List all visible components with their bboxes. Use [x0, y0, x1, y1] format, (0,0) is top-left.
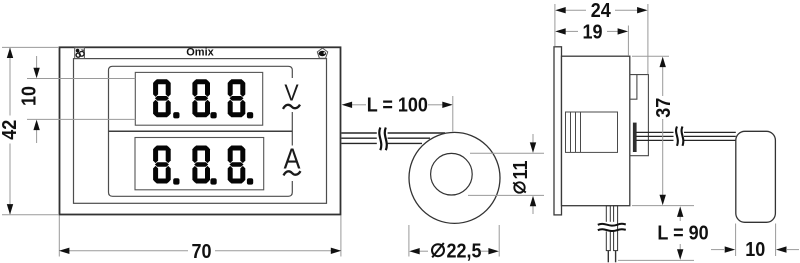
- svg-text:10: 10: [745, 239, 765, 261]
- svg-text:19: 19: [582, 22, 602, 44]
- dim 10 toroid arrows (outside): [711, 249, 724, 251]
- dim 37 line: [662, 62, 664, 96]
- rear terminal block outline: [630, 75, 649, 156]
- toroid inner hole: [431, 153, 473, 195]
- cable wire middle line: [341, 137, 430, 139]
- dim dia11 symbol + text rotated: [510, 160, 532, 193]
- dim 42 line: [9, 48, 11, 116]
- toroid outer circle: [409, 132, 500, 223]
- dim 24 line: [564, 9, 586, 11]
- cable wire top line: [341, 132, 445, 134]
- meter body side: [562, 56, 630, 206]
- side cable break gap: [674, 126, 685, 146]
- svg-text:11: 11: [510, 160, 532, 179]
- dim 10 arrows (outside): [36, 56, 38, 69]
- svg-text:37: 37: [653, 98, 675, 118]
- dim 10 toroid ext lines: [735, 224, 737, 257]
- side cable bottom line: [636, 139, 736, 141]
- internal module box: [566, 112, 618, 152]
- dim L=100 ext line to toroid: [452, 96, 454, 132]
- dim 42 arrowheads: [7, 48, 13, 59]
- dim 24 ext lines: [554, 4, 556, 46]
- dim dia11 ext lines: [470, 152, 544, 154]
- dim L=100 line: [350, 104, 366, 106]
- display bezel rounded rect: [109, 66, 293, 196]
- V row digits 8.8.8.: [153, 79, 253, 118]
- A display window: [135, 138, 264, 190]
- svg-text:10: 10: [19, 86, 41, 106]
- toroid side view: [736, 131, 776, 222]
- wire 2 core: [615, 251, 617, 263]
- dim 24 arrowheads: [555, 7, 566, 13]
- side cable break curves: [676, 127, 683, 146]
- dim L=90 arrowheads: [677, 206, 683, 217]
- bezel outer frame: [60, 47, 341, 214]
- svg-text:L = 90: L = 90: [657, 223, 708, 245]
- wire break gap: [603, 222, 617, 232]
- dim 37 ext lines: [632, 55, 669, 57]
- side cable top line: [636, 131, 736, 133]
- dim 19 arrowheads: [555, 28, 566, 34]
- dim dia22,5 line: [418, 250, 428, 252]
- flange / bezel side profile: [554, 47, 562, 215]
- dim 10 ext lines: [27, 78, 135, 80]
- dim 70 ext lines: [58, 216, 60, 257]
- tilde under V: [283, 105, 300, 109]
- svg-text:Omix: Omix: [186, 47, 214, 59]
- dim dia22,5 arrowheads: [409, 248, 420, 254]
- dim 42 ext lines: [2, 46, 59, 48]
- right header pentagon mark: [317, 48, 327, 58]
- rear block notch: [630, 75, 637, 100]
- A row digits 8.8.8.: [153, 146, 253, 185]
- inner front panel: [74, 59, 327, 204]
- cable break gap: [377, 127, 388, 152]
- dim L=90 line: [679, 213, 681, 221]
- dim 19 ext line: [627, 26, 629, 56]
- dim 37 arrowheads: [660, 57, 666, 68]
- tilde under A: [284, 171, 301, 175]
- dim L=100 arrowheads: [342, 102, 353, 108]
- svg-text:L = 100: L = 100: [367, 95, 428, 117]
- cable wire bottom line: [341, 142, 422, 144]
- dim dia22,5 diameter symbol: [432, 243, 444, 257]
- dim dia11 arrows (outside): [532, 134, 534, 144]
- divider line between V and A sections: [109, 130, 293, 132]
- svg-text:22,5: 22,5: [447, 241, 482, 263]
- dim dia22,5 ext lines: [408, 225, 410, 257]
- bottom wire 2: [614, 206, 618, 251]
- wire break curves: [598, 224, 626, 231]
- bottom wire 1: [606, 206, 610, 251]
- svg-text:42: 42: [0, 120, 21, 140]
- cable break curves: [379, 128, 387, 151]
- svg-text:24: 24: [591, 0, 611, 22]
- cable connector plate: [633, 123, 636, 152]
- internal module laminations: [570, 112, 572, 152]
- dim 70 line: [68, 250, 188, 252]
- wire 1 core: [607, 251, 609, 263]
- dim 70 arrowheads: [59, 248, 70, 254]
- left header logo box: [75, 48, 85, 59]
- svg-text:V: V: [284, 80, 298, 106]
- V display window: [135, 72, 262, 125]
- dim L=90 bottom ext line: [618, 259, 694, 261]
- side cable middle line: [636, 135, 736, 137]
- svg-text:A: A: [284, 142, 302, 175]
- dim 19 line: [564, 30, 578, 32]
- svg-text:70: 70: [191, 241, 211, 263]
